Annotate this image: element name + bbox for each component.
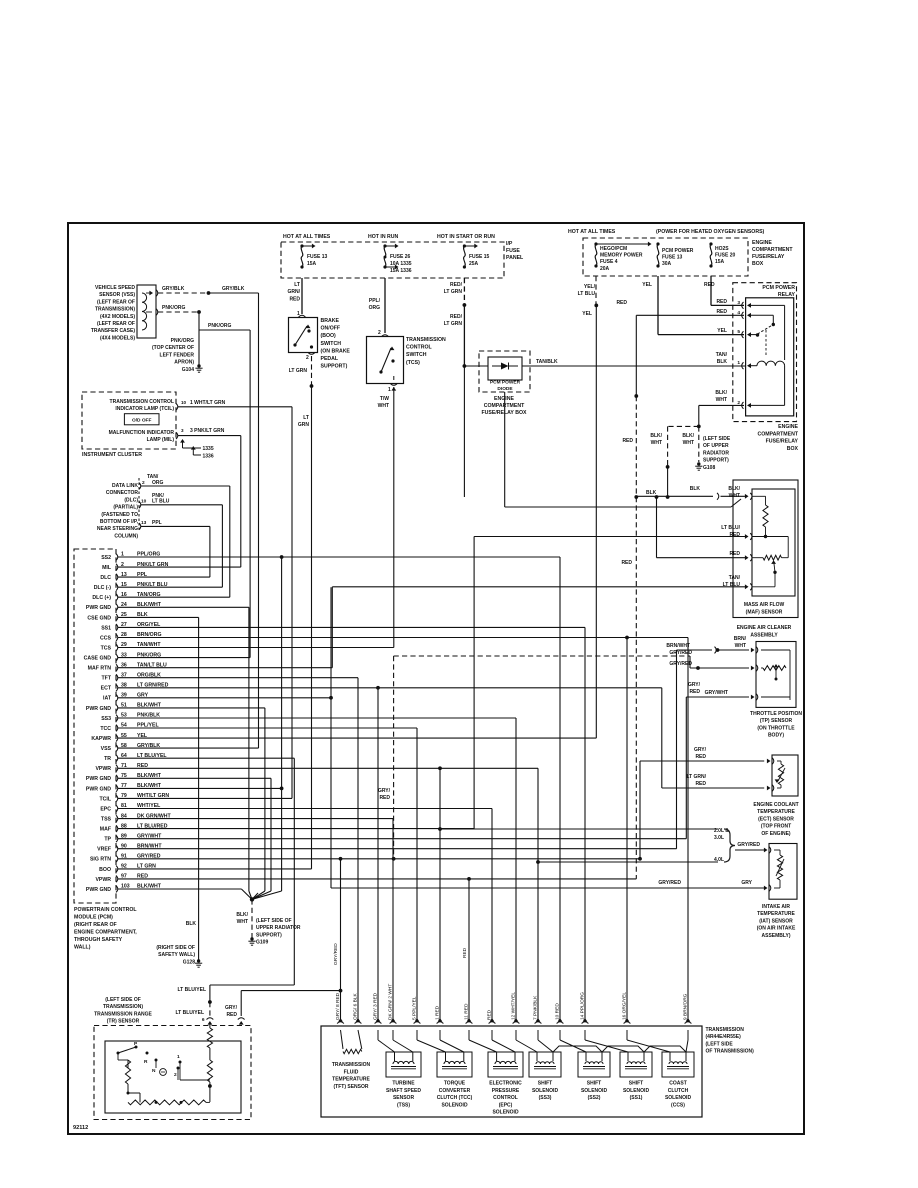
svg-text:BLK: BLK (646, 490, 657, 496)
svg-text:RED/: RED/ (450, 314, 463, 320)
svg-text:6: 6 (202, 1017, 205, 1023)
svg-text:CLUTCH (TCC): CLUTCH (TCC) (437, 1095, 473, 1101)
svg-text:WALL): WALL) (74, 945, 91, 951)
svg-text:INTAKE AIR: INTAKE AIR (762, 904, 790, 910)
svg-text:92112: 92112 (73, 1125, 88, 1131)
svg-text:FUSE 13: FUSE 13 (662, 255, 683, 261)
svg-text:PCM POWER: PCM POWER (662, 248, 694, 254)
svg-text:WHT: WHT (716, 397, 727, 403)
svg-text:(ON AIR INTAKE: (ON AIR INTAKE (757, 926, 796, 932)
svg-text:COLUMN): COLUMN) (114, 533, 138, 539)
svg-text:MEMORY POWER: MEMORY POWER (600, 253, 643, 259)
svg-text:FLUID: FLUID (344, 1069, 359, 1075)
svg-text:SUPPORT): SUPPORT) (703, 458, 729, 464)
svg-text:LEFT FENDER: LEFT FENDER (160, 352, 195, 358)
svg-text:COMPARTMENT: COMPARTMENT (757, 431, 798, 437)
svg-text:BLK/: BLK/ (236, 912, 248, 918)
svg-text:(PARTIAL): (PARTIAL) (113, 505, 138, 511)
svg-text:GRN/: GRN/ (288, 289, 301, 295)
svg-text:SWITCH: SWITCH (406, 352, 427, 358)
svg-text:CCS: CCS (100, 635, 111, 641)
svg-text:DLC (+): DLC (+) (92, 595, 111, 601)
svg-text:TAN/: TAN/ (716, 352, 728, 358)
svg-text:(DLC): (DLC) (124, 497, 138, 503)
svg-text:GRN: GRN (298, 422, 310, 428)
svg-text:ON/OFF: ON/OFF (321, 326, 341, 332)
svg-text:BLK/: BLK/ (650, 433, 662, 439)
svg-text:(LEFT SIDE OF: (LEFT SIDE OF (105, 997, 141, 1003)
svg-text:MASS AIR FLOW: MASS AIR FLOW (744, 602, 785, 608)
svg-text:ENGINE: ENGINE (752, 240, 772, 246)
svg-text:YEL: YEL (642, 282, 652, 288)
svg-text:SWITCH: SWITCH (321, 341, 342, 347)
svg-text:(TR) SENSOR: (TR) SENSOR (107, 1019, 140, 1025)
svg-text:TRANSMISSION RANGE: TRANSMISSION RANGE (94, 1011, 152, 1017)
svg-text:SHAFT SPEED: SHAFT SPEED (386, 1088, 421, 1094)
svg-text:FUSE 26: FUSE 26 (390, 254, 411, 260)
svg-text:TRANSMISSION: TRANSMISSION (406, 337, 446, 343)
svg-text:HOT AT ALL TIMES: HOT AT ALL TIMES (283, 234, 331, 240)
svg-text:(4X4 MODELS): (4X4 MODELS) (100, 335, 135, 341)
svg-text:(EPC): (EPC) (499, 1102, 513, 1108)
svg-text:15A: 15A (307, 261, 317, 267)
svg-text:TORQUE: TORQUE (444, 1081, 466, 1087)
svg-text:ASSEMBLY: ASSEMBLY (750, 633, 778, 639)
svg-text:DLC: DLC (100, 575, 111, 581)
svg-text:ORG: ORG (369, 305, 381, 311)
svg-text:FUSE/RELAY: FUSE/RELAY (766, 439, 799, 445)
svg-text:LT BLU: LT BLU (152, 499, 170, 505)
svg-text:ECT: ECT (101, 686, 112, 692)
svg-text:MIL: MIL (102, 565, 112, 571)
svg-text:WHT: WHT (378, 403, 389, 409)
svg-text:HOT IN START OR RUN: HOT IN START OR RUN (437, 234, 495, 240)
svg-text:2: 2 (378, 330, 381, 336)
svg-text:ENGINE COOLANT: ENGINE COOLANT (753, 802, 798, 808)
svg-text:DATA LINK: DATA LINK (112, 483, 138, 489)
svg-text:RED: RED (616, 300, 627, 306)
svg-text:POWERTRAIN CONTROL: POWERTRAIN CONTROL (74, 907, 137, 913)
svg-text:TRANSMISSION): TRANSMISSION) (95, 307, 135, 313)
svg-text:(RIGHT REAR OF: (RIGHT REAR OF (74, 922, 117, 928)
svg-text:(SS1): (SS1) (630, 1095, 643, 1101)
svg-text:TCC: TCC (100, 726, 111, 732)
svg-text:LT BLU: LT BLU (723, 582, 741, 588)
svg-text:VPWR: VPWR (95, 877, 111, 883)
svg-text:5 PPL/YEL: 5 PPL/YEL (412, 996, 418, 1020)
svg-text:GRY/: GRY/ (694, 747, 707, 753)
svg-text:GRY/RED: GRY/RED (658, 880, 681, 886)
svg-text:IAT: IAT (103, 696, 112, 702)
svg-text:TRANSMISSION: TRANSMISSION (706, 1027, 745, 1033)
svg-text:PRESSURE: PRESSURE (492, 1088, 520, 1094)
svg-text:RED: RED (729, 532, 740, 538)
svg-text:LT GRN/: LT GRN/ (686, 774, 706, 780)
svg-text:YEL/: YEL/ (584, 284, 596, 290)
svg-text:THROUGH SAFETY: THROUGH SAFETY (74, 937, 123, 943)
svg-text:(TOP CENTER OF: (TOP CENTER OF (152, 345, 194, 351)
svg-text:TCIL: TCIL (99, 796, 111, 802)
svg-text:RED: RED (716, 299, 727, 305)
svg-text:SAFETY WALL): SAFETY WALL) (158, 952, 195, 958)
svg-text:30A: 30A (662, 261, 672, 267)
svg-text:GRY/BLK: GRY/BLK (162, 286, 185, 292)
svg-text:TURBINE: TURBINE (392, 1081, 415, 1087)
svg-text:(TSS): (TSS) (397, 1102, 410, 1108)
svg-text:T/W: T/W (380, 396, 389, 402)
svg-text:R: R (144, 1059, 148, 1065)
svg-text:1: 1 (177, 1054, 180, 1060)
svg-text:PCM POWER: PCM POWER (762, 285, 795, 291)
svg-text:TEMPERATURE: TEMPERATURE (332, 1077, 370, 1083)
svg-text:(CCS): (CCS) (671, 1102, 685, 1108)
svg-text:SENSOR: SENSOR (393, 1095, 415, 1101)
svg-text:GRY/RED: GRY/RED (669, 650, 692, 656)
svg-text:RED/: RED/ (450, 282, 463, 288)
svg-text:YEL: YEL (582, 311, 592, 317)
svg-text:MAF: MAF (100, 827, 111, 833)
svg-text:PNK/ORG: PNK/ORG (208, 323, 231, 329)
svg-text:10: 10 (181, 400, 187, 405)
svg-text:I/P: I/P (506, 241, 513, 247)
svg-text:LAMP (MIL): LAMP (MIL) (147, 437, 175, 443)
svg-text:SS2: SS2 (101, 555, 111, 561)
svg-text:(4R44E/4R55E): (4R44E/4R55E) (706, 1034, 742, 1040)
svg-text:GRY/RED: GRY/RED (737, 842, 760, 848)
svg-text:GRY: GRY (741, 880, 752, 886)
svg-text:GRY/: GRY/ (688, 682, 701, 688)
svg-text:PPL: PPL (152, 520, 162, 526)
svg-text:LT BLU/: LT BLU/ (721, 525, 740, 531)
svg-text:TRANSMISSION: TRANSMISSION (332, 1062, 371, 1068)
svg-text:BODY): BODY) (768, 733, 784, 739)
svg-text:HO2S: HO2S (715, 246, 729, 252)
svg-text:DK GRN/ 2 WHT: DK GRN/ 2 WHT (388, 984, 394, 1020)
svg-text:BLK: BLK (690, 486, 701, 492)
svg-text:SOLENOID: SOLENOID (623, 1088, 650, 1094)
svg-text:SUPPORT): SUPPORT) (256, 932, 282, 938)
svg-text:MALFUNCTION INDICATOR: MALFUNCTION INDICATOR (109, 430, 175, 436)
svg-text:OF UPPER: OF UPPER (703, 443, 729, 449)
svg-text:PANEL: PANEL (506, 255, 524, 261)
svg-text:TCS: TCS (101, 645, 112, 651)
svg-text:SOLENOID: SOLENOID (441, 1102, 468, 1108)
svg-text:ORG: ORG (152, 480, 164, 486)
svg-text:SOLENOID: SOLENOID (492, 1110, 519, 1116)
svg-text:1335: 1335 (203, 446, 214, 452)
svg-text:RED: RED (462, 947, 468, 958)
svg-text:RED: RED (622, 438, 633, 444)
svg-text:TSS: TSS (101, 817, 112, 823)
svg-text:LT: LT (303, 415, 309, 421)
svg-text:SENSOR (VSS): SENSOR (VSS) (99, 292, 135, 298)
svg-text:SS3: SS3 (101, 716, 111, 722)
svg-text:MODULE (PCM): MODULE (PCM) (74, 915, 113, 921)
svg-text:15A: 15A (715, 259, 725, 265)
svg-text:BLK/: BLK/ (682, 433, 694, 439)
svg-text:SHIFT: SHIFT (587, 1081, 601, 1087)
svg-text:RED: RED (289, 296, 300, 302)
svg-text:GRY/ 3 RED: GRY/ 3 RED (373, 992, 379, 1020)
svg-text:2: 2 (306, 355, 309, 361)
svg-text:MAF RTN: MAF RTN (88, 666, 112, 672)
svg-text:PCM POWER: PCM POWER (490, 380, 521, 386)
svg-text:BOX: BOX (787, 446, 799, 452)
svg-text:BLK: BLK (186, 921, 197, 927)
svg-text:HEGO/PCM: HEGO/PCM (600, 246, 627, 252)
svg-text:PWR GND: PWR GND (86, 605, 111, 611)
svg-text:CONNECTOR: CONNECTOR (106, 490, 139, 496)
svg-text:3: 3 (181, 428, 184, 433)
svg-text:INSTRUMENT CLUSTER: INSTRUMENT CLUSTER (82, 452, 142, 458)
svg-text:RED: RED (621, 560, 632, 566)
svg-text:ENGINE COMPARTMENT,: ENGINE COMPARTMENT, (74, 930, 137, 936)
svg-text:FUSE 4: FUSE 4 (600, 259, 618, 265)
svg-text:(LEFT REAR OF: (LEFT REAR OF (97, 299, 135, 305)
svg-text:PNK/ORG: PNK/ORG (171, 338, 194, 344)
svg-text:2: 2 (142, 480, 145, 486)
svg-text:WHT: WHT (683, 440, 694, 446)
svg-text:G108: G108 (703, 465, 715, 471)
svg-text:(BOO): (BOO) (321, 333, 337, 339)
svg-text:TEMPERATURE: TEMPERATURE (757, 809, 795, 815)
svg-text:RED: RED (729, 551, 740, 557)
svg-text:RED: RED (379, 795, 390, 801)
svg-text:TR: TR (104, 756, 111, 762)
svg-text:12 WHT/YEL: 12 WHT/YEL (511, 992, 517, 1020)
svg-text:(POWER FOR HEATED OXYGEN SENSO: (POWER FOR HEATED OXYGEN SENSORS) (656, 229, 765, 235)
svg-text:GRY/BLK: GRY/BLK (222, 286, 245, 292)
svg-text:(TCS): (TCS) (406, 360, 420, 366)
svg-text:BRN/: BRN/ (734, 636, 747, 642)
svg-text:(TP) SENSOR: (TP) SENSOR (760, 718, 793, 724)
svg-text:BRAKE: BRAKE (321, 318, 340, 324)
svg-text:GRY/: GRY/ (225, 1005, 238, 1011)
svg-text:SIG RTN: SIG RTN (90, 857, 111, 863)
svg-text:FUSE 20: FUSE 20 (715, 253, 736, 259)
svg-text:(ON THROTTLE: (ON THROTTLE (757, 725, 795, 731)
svg-text:1 RED: 1 RED (435, 1005, 441, 1020)
svg-text:SHIFT: SHIFT (629, 1081, 643, 1087)
svg-text:1336: 1336 (203, 454, 214, 460)
svg-text:RED: RED (716, 309, 727, 315)
svg-text:RADIATOR: RADIATOR (703, 450, 729, 456)
svg-text:CSE GND: CSE GND (87, 615, 111, 621)
svg-text:(SS3): (SS3) (539, 1095, 552, 1101)
svg-text:11 RED: 11 RED (464, 1003, 470, 1020)
svg-text:10 RED: 10 RED (555, 1003, 561, 1020)
svg-text:FUSE 15: FUSE 15 (469, 254, 490, 260)
svg-text:TRANSFER CASE): TRANSFER CASE) (91, 328, 136, 334)
svg-text:BOTTOM OF I/P,: BOTTOM OF I/P, (100, 519, 139, 525)
svg-text:ENGINE AIR CLEANER: ENGINE AIR CLEANER (737, 625, 792, 631)
svg-text:SOLENOID: SOLENOID (581, 1088, 608, 1094)
svg-text:WHT: WHT (735, 643, 746, 649)
svg-text:(MAF) SENSOR: (MAF) SENSOR (746, 610, 783, 616)
svg-text:(TFT) SENSOR: (TFT) SENSOR (334, 1084, 369, 1090)
svg-text:CASE GND: CASE GND (84, 656, 112, 662)
svg-text:PEDAL: PEDAL (321, 356, 339, 362)
svg-text:(IAT) SENSOR: (IAT) SENSOR (759, 918, 793, 924)
svg-text:(4X2 MODELS): (4X2 MODELS) (100, 314, 135, 320)
svg-text:ASSEMBLY): ASSEMBLY) (762, 933, 791, 939)
svg-text:PNK/ORG: PNK/ORG (162, 305, 185, 311)
svg-text:VEHICLE SPEED: VEHICLE SPEED (95, 285, 135, 291)
svg-text:CONTROL: CONTROL (493, 1095, 518, 1101)
svg-text:FUSE: FUSE (506, 248, 520, 254)
svg-text:ELECTRONIC: ELECTRONIC (489, 1081, 522, 1087)
svg-text:(LEFT SIDE: (LEFT SIDE (706, 1041, 734, 1047)
svg-text:G109: G109 (256, 940, 268, 946)
svg-text:NEAR STEERING: NEAR STEERING (97, 526, 138, 532)
svg-text:(RIGHT SIDE OF: (RIGHT SIDE OF (156, 945, 195, 951)
svg-text:GRY/WHT: GRY/WHT (705, 690, 728, 696)
svg-text:HOT IN RUN: HOT IN RUN (368, 234, 399, 240)
svg-text:(ECT) SENSOR: (ECT) SENSOR (758, 816, 794, 822)
svg-text:LT BLU: LT BLU (578, 291, 596, 297)
svg-text:PPL/: PPL/ (369, 298, 381, 304)
svg-text:7 PNK/BLK: 7 PNK/BLK (533, 995, 539, 1020)
svg-text:FUSE 13: FUSE 13 (307, 254, 328, 260)
svg-text:COMPARTMENT: COMPARTMENT (752, 247, 793, 253)
svg-text:3.0L: 3.0L (714, 835, 724, 841)
svg-text:PWR GND: PWR GND (86, 706, 111, 712)
svg-text:14 PPL/ORG: 14 PPL/ORG (580, 992, 586, 1020)
svg-text:COAST: COAST (669, 1081, 687, 1087)
svg-text:HOT AT ALL TIMES: HOT AT ALL TIMES (568, 229, 616, 235)
svg-text:OF ENGINE): OF ENGINE) (761, 831, 791, 837)
svg-text:1 WHT/LT GRN: 1 WHT/LT GRN (190, 400, 226, 406)
svg-text:15A 1336: 15A 1336 (390, 268, 412, 274)
svg-text:LT BLU/YEL: LT BLU/YEL (177, 987, 206, 993)
svg-text:CONVERTER: CONVERTER (439, 1088, 471, 1094)
svg-text:TAN/: TAN/ (729, 575, 741, 581)
svg-text:OF TRANSMISSION): OF TRANSMISSION) (706, 1049, 755, 1055)
svg-text:16 ORG/YEL: 16 ORG/YEL (622, 992, 628, 1020)
svg-text:INDICATOR LAMP (TCIL): INDICATOR LAMP (TCIL) (115, 406, 174, 412)
svg-text:(LEFT SIDE OF: (LEFT SIDE OF (256, 918, 292, 924)
svg-text:ENGINE: ENGINE (778, 424, 798, 430)
svg-text:BOO: BOO (99, 867, 111, 873)
svg-text:FUSE/RELAY: FUSE/RELAY (752, 254, 785, 260)
svg-text:GRY/: GRY/ (378, 788, 391, 794)
svg-text:LT GRN: LT GRN (444, 321, 463, 327)
svg-text:WHT: WHT (237, 919, 248, 925)
svg-text:DLC (-): DLC (-) (94, 585, 112, 591)
svg-text:G128: G128 (183, 959, 195, 965)
svg-text:1: 1 (388, 387, 391, 393)
svg-text:RED: RED (226, 1012, 237, 1018)
svg-text:13: 13 (141, 520, 147, 526)
svg-text:BOX: BOX (752, 261, 764, 267)
svg-text:GRY/RED: GRY/RED (669, 661, 692, 667)
svg-text:SUPPORT): SUPPORT) (321, 364, 348, 370)
svg-text:WHT: WHT (651, 440, 662, 446)
svg-text:25A: 25A (469, 261, 479, 267)
svg-text:2: 2 (174, 1072, 177, 1078)
svg-text:GRY/RED: GRY/RED (333, 943, 339, 965)
svg-text:BRN/WHT: BRN/WHT (666, 643, 690, 649)
svg-text:RED: RED (704, 282, 715, 288)
svg-text:GRY/ 8 RED: GRY/ 8 RED (335, 992, 341, 1020)
svg-text:SHIFT: SHIFT (538, 1081, 552, 1087)
svg-text:VPWR: VPWR (95, 766, 111, 772)
svg-text:PWR GND: PWR GND (86, 776, 111, 782)
svg-text:(LEFT REAR OF: (LEFT REAR OF (97, 321, 135, 327)
svg-text:RED: RED (695, 781, 706, 787)
svg-text:PWR GND: PWR GND (86, 887, 111, 893)
svg-text:VREF: VREF (97, 847, 111, 853)
svg-text:SOLENOID: SOLENOID (665, 1095, 692, 1101)
svg-text:BLK/: BLK/ (715, 390, 727, 396)
svg-text:LT BLU/YEL: LT BLU/YEL (175, 1010, 204, 1016)
svg-text:APRON): APRON) (174, 360, 194, 366)
svg-text:TP: TP (104, 837, 111, 843)
svg-text:O/D OFF: O/D OFF (132, 418, 152, 424)
svg-text:PWR GND: PWR GND (86, 786, 111, 792)
svg-text:(ON BRAKE: (ON BRAKE (321, 348, 351, 354)
svg-text:LT: LT (294, 282, 300, 288)
svg-text:(SS2): (SS2) (588, 1095, 601, 1101)
svg-text:KAPWR: KAPWR (91, 736, 111, 742)
svg-text:TAN/BLK: TAN/BLK (536, 359, 558, 365)
svg-text:(TOP FRONT: (TOP FRONT (761, 824, 791, 830)
svg-text:TRANSMISSION): TRANSMISSION) (103, 1004, 143, 1010)
svg-text:RED: RED (689, 689, 700, 695)
svg-text:BLK: BLK (717, 359, 728, 365)
svg-text:10A 1335: 10A 1335 (390, 261, 412, 267)
svg-text:3 PNK/LT GRN: 3 PNK/LT GRN (190, 428, 225, 434)
svg-text:10: 10 (141, 499, 147, 505)
svg-text:BLK/: BLK/ (728, 486, 740, 492)
svg-text:TRANSMISSION CONTROL: TRANSMISSION CONTROL (110, 399, 174, 405)
svg-text:20A: 20A (600, 266, 610, 272)
svg-text:(FASTENED TO: (FASTENED TO (101, 512, 138, 518)
svg-text:G104: G104 (182, 367, 194, 373)
svg-text:9 BRN/ORG: 9 BRN/ORG (683, 993, 689, 1020)
svg-text:1: 1 (737, 360, 740, 366)
svg-text:(LEFT SIDE: (LEFT SIDE (703, 436, 731, 442)
svg-text:TEMPERATURE: TEMPERATURE (757, 911, 795, 917)
svg-text:CONTROL: CONTROL (406, 345, 432, 351)
svg-text:ORG/ 6 BLK: ORG/ 6 BLK (353, 993, 359, 1020)
svg-text:EPC: EPC (100, 806, 111, 812)
svg-text:THROTTLE POSITION: THROTTLE POSITION (750, 711, 802, 717)
svg-text:SOLENOID: SOLENOID (532, 1088, 559, 1094)
svg-text:SS1: SS1 (101, 625, 111, 631)
svg-text:RED: RED (487, 1009, 493, 1020)
svg-text:TFT: TFT (101, 676, 111, 682)
svg-text:VSS: VSS (101, 746, 112, 752)
svg-text:RELAY: RELAY (778, 292, 796, 298)
svg-text:RED: RED (695, 754, 706, 760)
svg-text:DIODE: DIODE (497, 386, 513, 392)
svg-text:LT GRN: LT GRN (444, 289, 463, 295)
svg-text:CLUTCH: CLUTCH (668, 1088, 689, 1094)
svg-text:LT GRN: LT GRN (289, 368, 308, 374)
svg-text:YEL: YEL (717, 328, 727, 334)
svg-text:N: N (152, 1068, 156, 1074)
